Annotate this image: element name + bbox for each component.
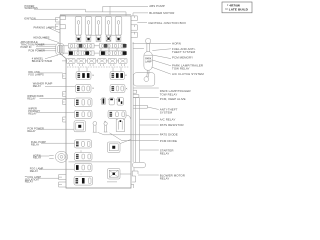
- cartridge fuse foot 2: [86, 35, 91, 41]
- svg-text:PCM, KEEP ALIVE: PCM, KEEP ALIVE: [160, 97, 186, 101]
- mini fuse row 1: [62, 44, 127, 48]
- left edge tab: [63, 117, 66, 122]
- right bump connector 2: [131, 25, 137, 30]
- wire drl leader: [39, 72, 63, 74]
- cartridge bridge links: [91, 34, 116, 36]
- left edge tab: [63, 92, 66, 97]
- wire park lamp 2 leader: [133, 87, 159, 89]
- cartridge fuse foot 4: [106, 35, 111, 41]
- wire pcm diode inner: [110, 133, 159, 141]
- right bump connector 3: [131, 32, 137, 37]
- wire fog isolation leader: [38, 177, 59, 179]
- maxi fuse cartridge 4: [105, 17, 112, 36]
- legend box: [222, 2, 252, 13]
- wire pats diode inner: [98, 132, 159, 135]
- wire pcm memory leader: [152, 55, 171, 59]
- relay D2 tail: [126, 115, 130, 119]
- relay E1 pcm power: [74, 121, 86, 132]
- connector B (horn relay feed): [49, 151, 67, 162]
- balloon (circuit breaker): [144, 52, 152, 71]
- left label column: [21, 4, 56, 184]
- left bump connector top 1: [56, 15, 66, 22]
- fuse element E4: [116, 119, 124, 131]
- cartridge fuse foot 1: [76, 35, 81, 41]
- svg-text:ABS PUMP: ABS PUMP: [149, 4, 165, 8]
- left edge tab: [63, 100, 66, 105]
- relay A2: [110, 72, 125, 80]
- svg-text:IGNITION: IGNITION: [24, 16, 36, 20]
- wire horn leader: [133, 43, 172, 45]
- x marks: [92, 75, 127, 90]
- maxi fuse cartridge 5: [115, 17, 122, 36]
- relay F1 fuel pump: [75, 140, 92, 148]
- svg-text:THEFT SYSTEM: THEFT SYSTEM: [172, 50, 196, 54]
- svg-text:TOW RELAY: TOW RELAY: [160, 92, 178, 96]
- svg-text:RELAY: RELAY: [160, 177, 170, 181]
- svg-text:FOG LAMPS: FOG LAMPS: [28, 72, 44, 76]
- wire power windows leader: [34, 9, 126, 15]
- svg-text:RELAY: RELAY: [27, 129, 36, 133]
- wire antitheft leader: [147, 107, 158, 110]
- svg-text:RELAY: RELAY: [31, 142, 40, 146]
- svg-text:PCM POWER: PCM POWER: [28, 48, 45, 52]
- wire abs module leaders: [36, 44, 56, 48]
- mini fuse row 2: [62, 51, 127, 55]
- svg-text:TOW RELAY: TOW RELAY: [172, 67, 190, 71]
- central junction box outline: [60, 15, 134, 188]
- wire horn relay leader: [39, 155, 49, 157]
- wire relay F2 stub: [120, 139, 131, 143]
- relay I1 blower: [108, 169, 121, 180]
- wire ac relay leader: [140, 118, 159, 120]
- wire headlamps leader: [43, 37, 59, 42]
- svg-text:PARKING LAMPS: PARKING LAMPS: [34, 25, 56, 29]
- wire starter relay leader: [140, 149, 159, 151]
- maxi fuse cartridge 3: [95, 17, 102, 36]
- relay J1 fog isolation: [74, 176, 93, 185]
- svg-text:PATS RESISTOR: PATS RESISTOR: [160, 123, 184, 127]
- maxi fuse cartridge 1: [75, 17, 82, 36]
- svg-text:PARK: PARK: [145, 57, 152, 60]
- wire ac clutch leader: [152, 67, 172, 74]
- svg-text:A/C CLUTCH SYSTEM: A/C CLUTCH SYSTEM: [172, 72, 204, 76]
- relay A1: [76, 72, 91, 80]
- right wide tab: [133, 105, 147, 108]
- svg-text:BLOWER MOTOR: BLOWER MOTOR: [149, 11, 174, 15]
- svg-text:HORN: HORN: [172, 42, 181, 46]
- fuse element E2: [93, 122, 97, 133]
- wire fuel antitheft leader: [133, 48, 171, 50]
- relay G1 horn: [75, 153, 93, 161]
- svg-text:A/C RELAY: A/C RELAY: [160, 118, 176, 122]
- wire ignition leader: [31, 18, 56, 20]
- relay H1 fog lamp: [75, 164, 93, 172]
- svg-text:HEADLAMPS: HEADLAMPS: [33, 35, 49, 39]
- wire central junction box leader: [137, 22, 147, 24]
- svg-text:PATS DIODE: PATS DIODE: [160, 133, 178, 137]
- svg-text:** LATE BUILD: ** LATE BUILD: [225, 8, 248, 12]
- right rail: [135, 98, 139, 162]
- svg-text:LAMP: LAMP: [145, 60, 152, 63]
- wire pats resistor leader: [140, 124, 159, 126]
- relay D2: [108, 110, 126, 118]
- svg-text:RELAY: RELAY: [27, 96, 36, 100]
- inter-row ticks: [70, 48, 117, 51]
- cartridge fuse foot 3: [96, 35, 101, 41]
- wire fuel pump relay leader: [41, 142, 75, 144]
- svg-text:SYSTEM: SYSTEM: [160, 111, 173, 115]
- wire blower motor relay leader: [138, 174, 159, 176]
- fuse row 3: [62, 58, 127, 66]
- wire parking lamps leader: [48, 27, 60, 33]
- right label column: [148, 4, 204, 180]
- relay D1 wiper primary: [75, 110, 93, 118]
- svg-text:RELAY: RELAY: [30, 169, 39, 173]
- right rail capsule: [132, 162, 145, 182]
- wire wiper primary leader: [37, 112, 75, 114]
- left edge tab bottom: [59, 175, 66, 180]
- wire relay I1 stub: [120, 173, 131, 175]
- right bump connector 1: [131, 16, 137, 21]
- svg-text:WINDOWS: WINDOWS: [25, 6, 38, 10]
- wire pcm power relay leader: [38, 128, 75, 130]
- relay I bottom line: [107, 181, 117, 183]
- fuse puller: [133, 70, 154, 86]
- svg-text:RELAY: RELAY: [25, 180, 34, 184]
- top fuse symbol: [146, 39, 151, 52]
- wire washer pump leader: [45, 86, 76, 88]
- wire blower motor leader: [133, 13, 148, 16]
- connector A (abs/pcm power): [56, 44, 64, 55]
- fuse element E3: [104, 121, 108, 132]
- right rail tabs: [133, 90, 139, 97]
- wire pcm keep alive leader: [133, 96, 159, 98]
- svg-text:RELAY: RELAY: [33, 84, 42, 88]
- wire fog lamp relay leader: [39, 168, 75, 170]
- svg-text:RELAY: RELAY: [28, 111, 37, 115]
- relay F2: [108, 142, 121, 153]
- mini fuses row C: [100, 98, 123, 106]
- svg-text:PCM MEMORY: PCM MEMORY: [172, 55, 193, 59]
- maxi fuse cartridge 2: [85, 17, 92, 36]
- wire 4wheel leader: [45, 55, 58, 59]
- wire pcm power leader: [39, 50, 56, 52]
- svg-text:RELAY: RELAY: [160, 152, 170, 156]
- svg-text:RELAY: RELAY: [33, 156, 42, 160]
- shelf line: [67, 66, 129, 68]
- left bump connector top 2: [56, 24, 66, 30]
- relay top ticks: [80, 150, 82, 175]
- relay C1 wiper park: [75, 98, 93, 107]
- left edge tab: [63, 74, 66, 79]
- relay B2: [110, 85, 125, 93]
- left edge tab bottom: [59, 182, 66, 187]
- relay B1: [76, 85, 92, 93]
- svg-text:CENTRAL JUNCTION BOX: CENTRAL JUNCTION BOX: [148, 21, 186, 25]
- wire wiper park leader: [40, 98, 75, 100]
- wire abs pump leader: [103, 6, 148, 14]
- cartridge fuse foot 5: [116, 35, 121, 41]
- svg-text:BRAKE SYSTEM: BRAKE SYSTEM: [32, 59, 52, 63]
- wire stubs: [79, 67, 121, 71]
- svg-text:PUMP IN: PUMP IN: [21, 45, 32, 49]
- svg-text:PCM DIODE: PCM DIODE: [160, 139, 177, 143]
- interior divider: [69, 161, 131, 163]
- wire park lamp leader: [152, 60, 171, 66]
